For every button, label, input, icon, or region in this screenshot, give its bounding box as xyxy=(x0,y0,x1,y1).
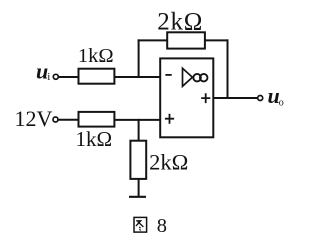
svg-text:1kΩ: 1kΩ xyxy=(75,127,112,151)
svg-text:2kΩ: 2kΩ xyxy=(157,8,203,35)
node ui input terminal xyxy=(53,74,58,79)
svg-text:2kΩ: 2kΩ xyxy=(149,150,188,175)
label u_i (input voltage) xyxy=(36,59,50,84)
caption 图 glyph (drawn) xyxy=(134,217,147,232)
label u_o (output voltage) xyxy=(268,83,284,108)
node 12V input terminal xyxy=(53,117,58,122)
wire op-amp output to uo terminal xyxy=(213,97,257,99)
wire R3 right lead xyxy=(205,39,229,41)
svg-text:1kΩ: 1kΩ xyxy=(78,45,114,67)
op-amp U1 non-inverting input plus sign xyxy=(165,114,174,124)
resistor R3 2kΩ (feedback) xyxy=(167,32,205,48)
wire R1 to op-amp inverting input (node A) xyxy=(114,76,160,78)
svg-text:12V: 12V xyxy=(15,106,53,131)
resistor R1 1kΩ (inverting input) xyxy=(79,69,115,84)
node uo output terminal xyxy=(258,96,263,101)
op-amp U1 output plus sign xyxy=(201,93,210,103)
ground bar xyxy=(129,196,146,198)
wire R3 left lead xyxy=(138,39,168,41)
resistor R2 1kΩ (non-inverting input) xyxy=(79,112,115,127)
op-amp U1 triangle symbol xyxy=(183,68,193,86)
wire R4 bottom lead to ground xyxy=(138,179,140,197)
wire ui terminal to R1 xyxy=(58,76,79,78)
op-amp U1 infinity gain symbol xyxy=(193,74,207,82)
wire 12V terminal to R2 xyxy=(58,119,79,121)
wire feedback right vertical down to output node xyxy=(227,39,229,99)
wire node B down to R4 xyxy=(138,119,140,141)
wire R2 to op-amp non-inverting input (node B) xyxy=(114,119,160,121)
resistor R4 2kΩ (to ground) xyxy=(130,141,146,179)
svg-text:o: o xyxy=(279,97,284,108)
op-amp U1 body xyxy=(160,58,213,137)
svg-text:8: 8 xyxy=(157,215,167,237)
op-amp U1 inverting input minus sign xyxy=(165,74,171,76)
svg-text:i: i xyxy=(47,71,50,83)
wire feedback left vertical (node A up to R3) xyxy=(138,39,140,78)
